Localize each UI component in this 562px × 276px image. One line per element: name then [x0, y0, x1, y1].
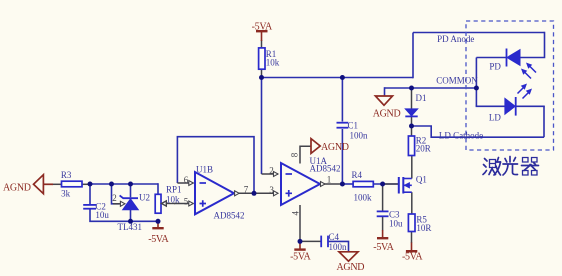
- svg-text:LD: LD: [489, 113, 501, 123]
- wire C4 left lead: [300, 240, 321, 242]
- svg-text:C1: C1: [348, 121, 359, 131]
- capacitor C3: [377, 211, 389, 216]
- svg-text:6: 6: [184, 175, 189, 185]
- wire LD cathode riser: [543, 106, 545, 137]
- resistor R1: [259, 48, 265, 69]
- power -5VA at R1: [256, 31, 268, 41]
- svg-text:10u: 10u: [95, 210, 109, 220]
- wire R1 bottom lead: [261, 69, 263, 77]
- resistor R4: [353, 181, 373, 186]
- op-amp U1A: [281, 163, 320, 205]
- power -5VA at U1A pin4: [294, 241, 305, 249]
- pin leads dark: [53, 40, 412, 243]
- wire R2 top lead: [411, 126, 413, 136]
- wire R3 left lead: [53, 183, 62, 185]
- node TL431 cathode: [128, 182, 133, 187]
- svg-text:TL431: TL431: [118, 222, 143, 232]
- wire U1A pin8 lead: [300, 146, 311, 163]
- wire COMMON agnd drop: [384, 87, 386, 96]
- wire LD cathode row: [412, 126, 545, 137]
- op-amp U1B: [195, 172, 234, 214]
- node TL431 ref: [109, 182, 114, 187]
- svg-text:1: 1: [327, 174, 332, 184]
- resistor R2: [408, 136, 414, 156]
- wire R1 top lead lower part: [261, 40, 263, 48]
- svg-text:10u: 10u: [389, 219, 403, 229]
- svg-text:PD: PD: [489, 62, 501, 72]
- svg-text:AGND: AGND: [3, 182, 31, 193]
- svg-text:3k: 3k: [61, 189, 71, 199]
- wire TL431 cathode stub: [130, 184, 132, 197]
- wire R1 junction row to PD anode riser: [262, 77, 414, 79]
- wire C2 upper: [89, 184, 91, 204]
- laser diode LD: [505, 84, 532, 116]
- WIRES_BLUE: [90, 32, 545, 252]
- wire R5 bottom lead: [411, 232, 413, 244]
- wire riser to PD Anode row: [412, 33, 414, 79]
- wire TL431 ref drop: [112, 184, 120, 204]
- wire LD anode link: [517, 105, 545, 107]
- node RP1 bottom: [156, 219, 161, 224]
- node U1A pin4: [298, 239, 303, 244]
- node R1 bottom: [259, 75, 264, 80]
- wire C1 lower segment: [341, 129, 343, 184]
- ground AGND at COMMON: [375, 96, 392, 105]
- wire U1B pin6 lead: [177, 182, 193, 184]
- svg-text:2: 2: [112, 193, 117, 203]
- svg-text:100k: 100k: [354, 193, 373, 203]
- wire PD Anode row: [413, 32, 545, 34]
- node C3 top: [380, 182, 385, 187]
- node TL431 anode: [128, 219, 133, 224]
- svg-text:-5VA: -5VA: [148, 234, 169, 245]
- pin arrows open: [120, 172, 325, 207]
- wire Q1 gate lead: [383, 183, 398, 185]
- svg-text:-5VA: -5VA: [252, 21, 273, 32]
- svg-text:7: 7: [244, 184, 249, 194]
- svg-text:PD Anode: PD Anode: [437, 34, 474, 44]
- node COMMON box: [474, 86, 479, 91]
- svg-text:2: 2: [269, 165, 274, 175]
- wire C1 upper segment: [341, 78, 343, 122]
- svg-text:U2: U2: [139, 193, 150, 203]
- svg-text:RP1: RP1: [166, 185, 182, 195]
- wire Q1 source lead: [411, 192, 413, 214]
- power -5VA at C3: [377, 230, 388, 238]
- wire C4 to AGND: [329, 241, 349, 251]
- wire U1A pin2 lead: [262, 173, 279, 175]
- transistor Q1: [399, 177, 412, 194]
- power -5VA at RP1: [152, 221, 163, 228]
- svg-text:8: 8: [290, 152, 300, 157]
- wire output row R4 to Q1 gate: [373, 183, 398, 185]
- wire PD LD left vertical: [475, 58, 477, 107]
- resistor R5: [408, 214, 415, 232]
- laser module dashed box: [466, 21, 554, 150]
- svg-text:20R: 20R: [416, 144, 431, 154]
- wire R3 right lead: [82, 183, 91, 185]
- svg-text:D1: D1: [416, 93, 427, 103]
- capacitor C4: [321, 236, 328, 248]
- wire C2 lower and bottom row: [90, 209, 158, 221]
- wire output row C1 to R4: [342, 183, 353, 185]
- wire R1 junction down to U1A pin2: [261, 78, 263, 175]
- svg-text:COMMON: COMMON: [436, 76, 478, 86]
- wire PD anode drop: [520, 32, 545, 58]
- diode D1: [405, 109, 417, 117]
- svg-text:AGND: AGND: [321, 142, 349, 153]
- wire U1B feedback loop: [177, 137, 254, 194]
- svg-text:-5VA: -5VA: [373, 242, 394, 253]
- node D1 bottom: [409, 124, 414, 129]
- node D1 top: [409, 86, 414, 91]
- svg-text:5: 5: [184, 196, 189, 206]
- wire U1B out to U1A pin3 lead: [234, 192, 278, 194]
- node R3 C2: [88, 182, 93, 187]
- capacitor C2: [83, 205, 96, 209]
- wire D1 bottom lead: [411, 117, 413, 127]
- svg-text:4: 4: [290, 211, 300, 216]
- potentiometer RP1 body: [155, 194, 161, 213]
- wire Q1 drain lead: [411, 156, 413, 179]
- svg-text:100n: 100n: [350, 131, 369, 141]
- svg-text:R3: R3: [61, 170, 72, 180]
- wire D1 top lead: [411, 88, 413, 110]
- ground AGND at C4: [339, 252, 358, 261]
- wire TL431 anode stub: [130, 210, 132, 222]
- svg-text:3: 3: [269, 185, 274, 195]
- svg-text:R4: R4: [352, 170, 363, 180]
- wire C3 upper lead: [382, 184, 384, 211]
- svg-text:10k: 10k: [266, 58, 280, 68]
- shunt regulator U2 TL431: [120, 195, 139, 209]
- wire TL431 ref lead: [113, 203, 120, 205]
- ground AGND left: [34, 175, 54, 194]
- text laser module 激光器: [483, 157, 539, 176]
- resistor R3: [62, 181, 83, 187]
- node C1 bottom: [340, 182, 345, 187]
- photodiode PD: [507, 49, 537, 79]
- svg-text:LD Cathode: LD Cathode: [439, 130, 483, 140]
- wire RP1 top riser: [157, 183, 159, 194]
- svg-text:C4: C4: [329, 232, 340, 242]
- svg-text:AD8542: AD8542: [214, 211, 245, 221]
- svg-text:-5VA: -5VA: [402, 251, 423, 262]
- svg-text:AGND: AGND: [373, 109, 401, 120]
- wire PD cathode link: [476, 57, 506, 59]
- svg-text:100n: 100n: [329, 242, 348, 252]
- svg-text:Q1: Q1: [416, 175, 427, 185]
- power -5VA at R5: [406, 243, 417, 252]
- wire main row R3 to RP1: [90, 183, 158, 185]
- wire COMMON row: [385, 87, 477, 89]
- ground AGND at U1A pin8: [311, 139, 320, 154]
- node C1 top: [340, 75, 345, 80]
- potentiometer RP1 wiper arrow: [162, 201, 176, 206]
- svg-text:AD8542: AD8542: [310, 164, 341, 174]
- svg-text:10k: 10k: [166, 195, 180, 205]
- wire C3 lower lead: [382, 217, 384, 231]
- capacitor C1: [337, 123, 349, 128]
- svg-text:AGND: AGND: [337, 262, 365, 273]
- wire U1A pin4 lead: [299, 205, 301, 241]
- wire LD anode left link: [476, 105, 506, 107]
- wire U1B pin5 lead: [174, 203, 194, 205]
- svg-text:-5VA: -5VA: [290, 252, 311, 263]
- svg-text:U1B: U1B: [196, 165, 213, 175]
- node U1B out: [252, 191, 257, 196]
- svg-text:10R: 10R: [416, 223, 431, 233]
- wire U1A out pin1 lead: [320, 183, 342, 185]
